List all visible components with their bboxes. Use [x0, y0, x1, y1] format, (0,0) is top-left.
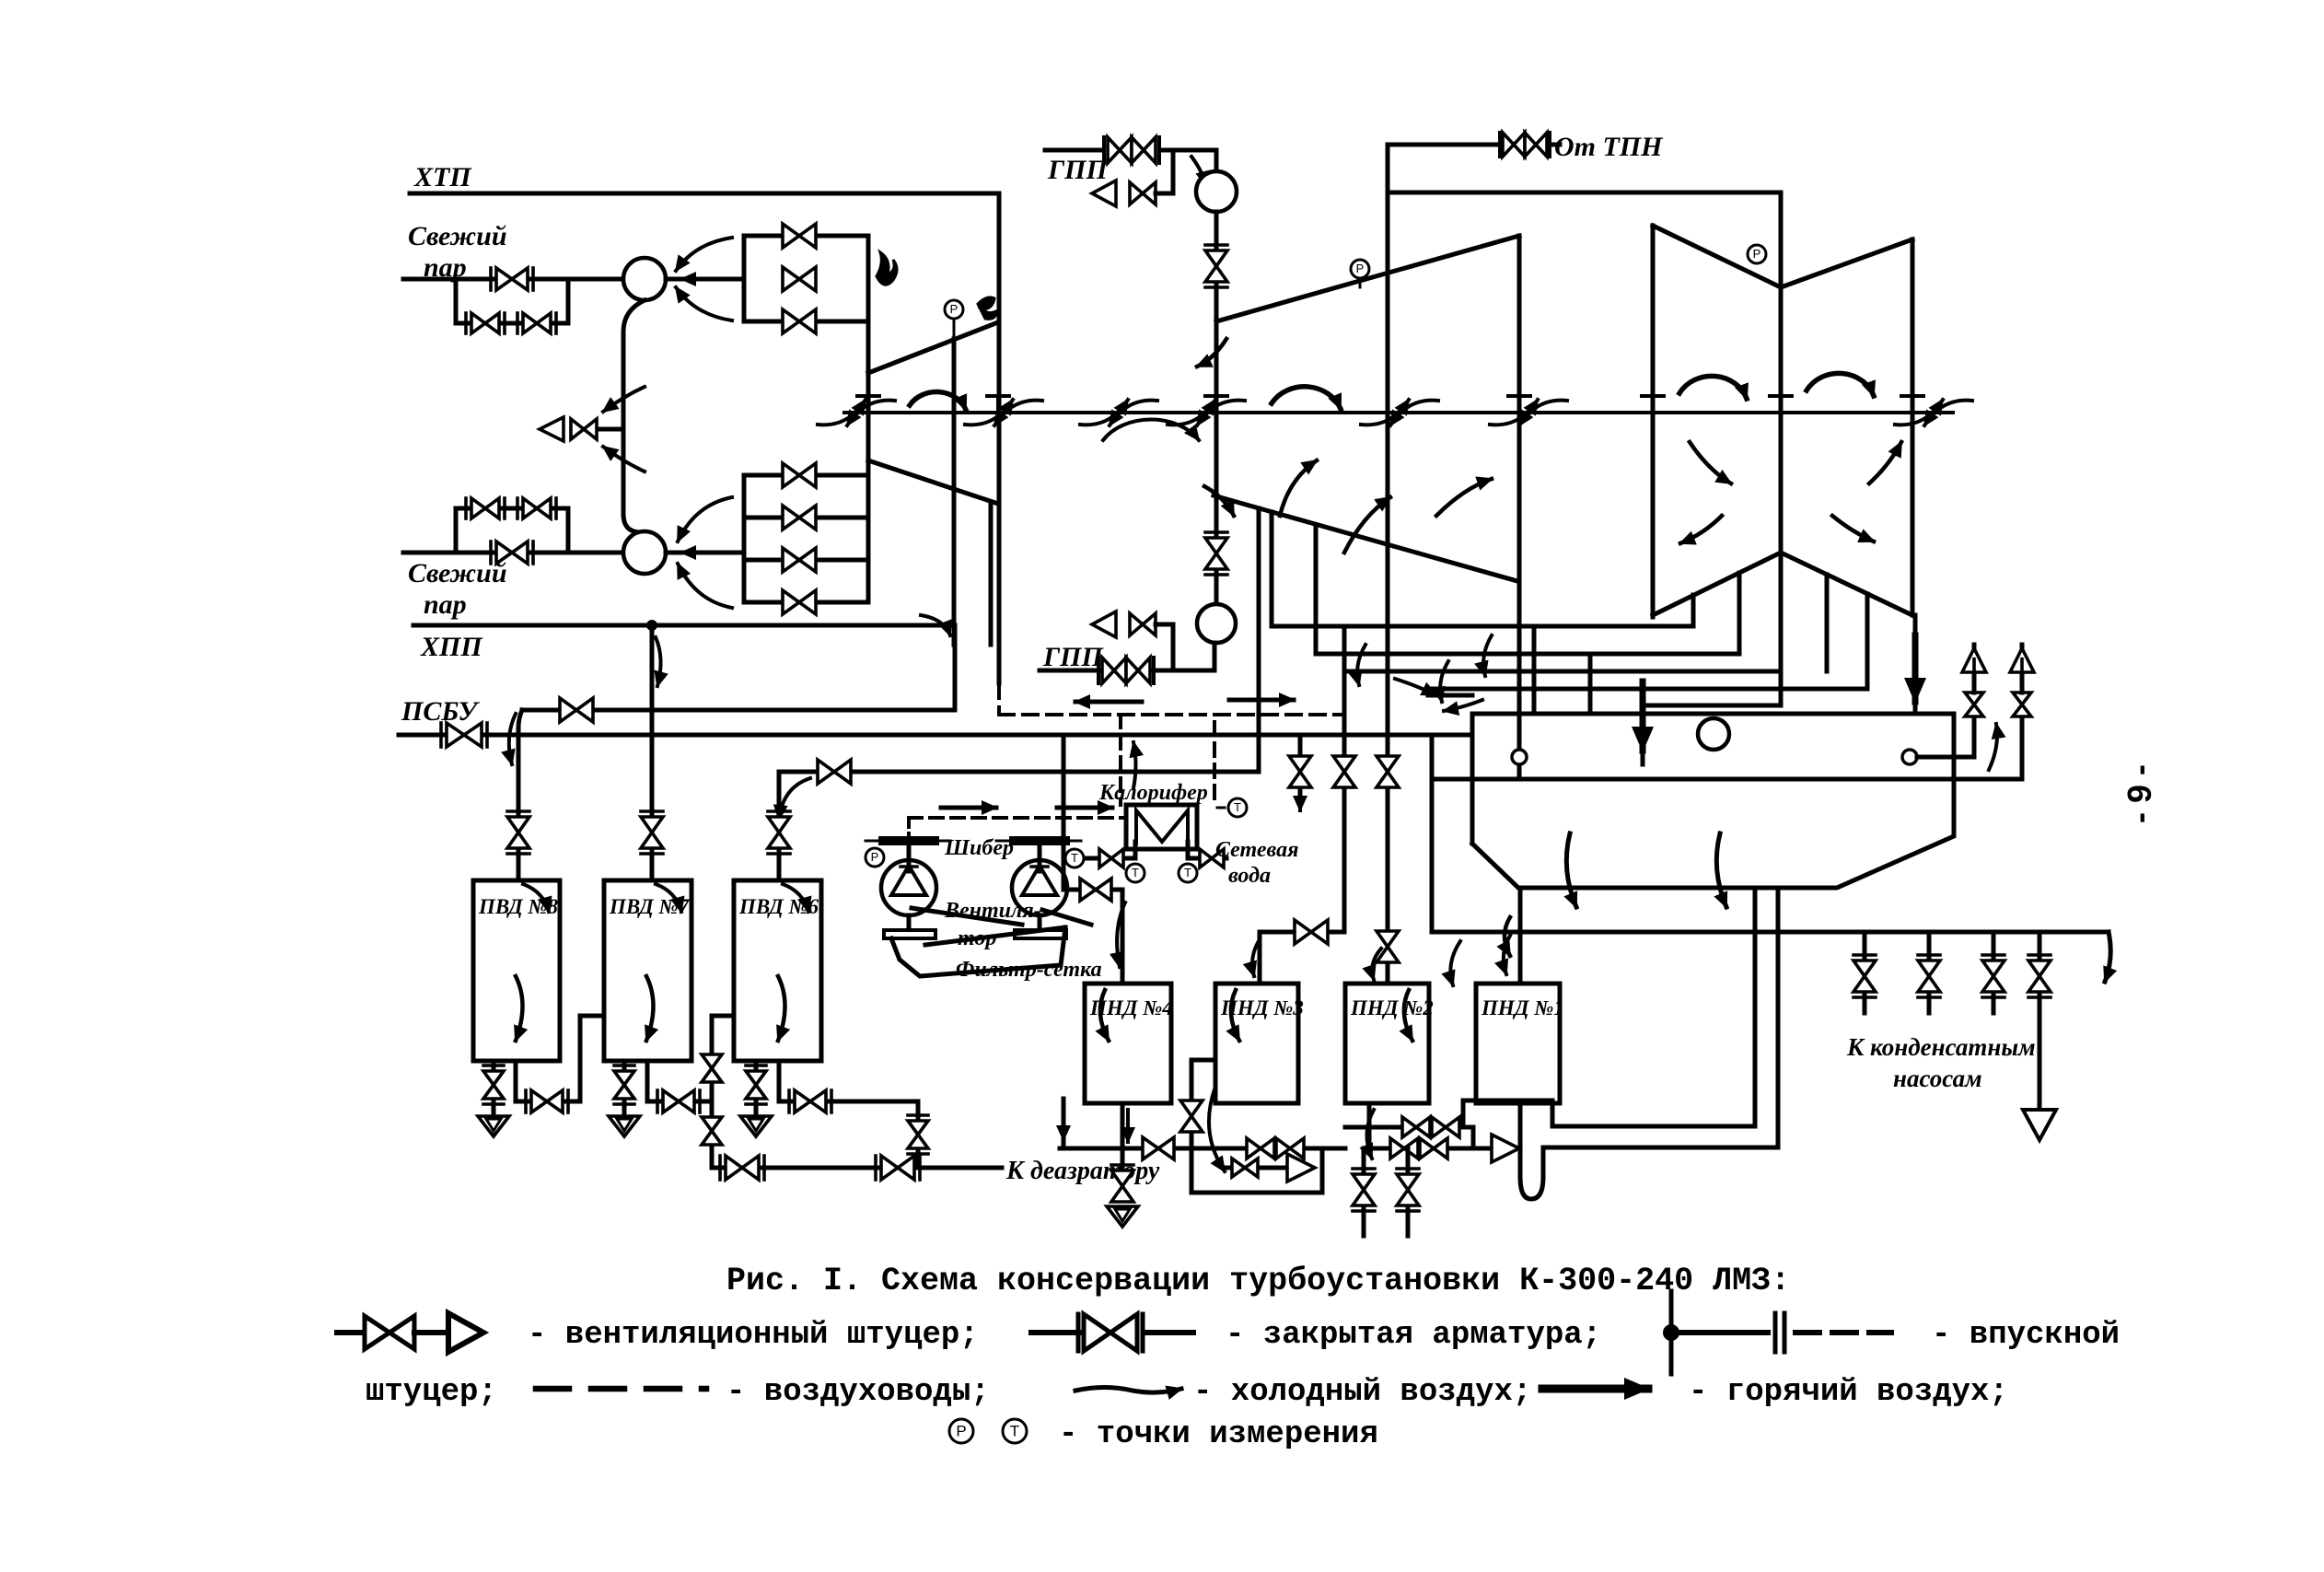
- svg-text:Т: Т: [1184, 866, 1191, 879]
- node scan smudge: [877, 252, 897, 285]
- node bold arrow cond feed 3: [1640, 681, 1646, 751]
- valve deaerator a: [726, 1156, 759, 1180]
- svg-text:От ТПН: От ТПН: [1554, 132, 1664, 162]
- turbine IP internal arrows below: [1103, 419, 1199, 440]
- valve bank1 row3: [783, 309, 816, 333]
- node junction dot: [646, 620, 657, 631]
- bearing HP left: [866, 396, 870, 413]
- node arrow into SV3: [1191, 157, 1206, 186]
- gauge T near duct: [1217, 807, 1228, 809]
- svg-text:- 9 -: - 9 -: [2121, 764, 2158, 823]
- svg-text:- вентиляционный штуцер;: - вентиляционный штуцер;: [528, 1318, 979, 1353]
- svg-text:- впускной: - впускной: [1932, 1318, 2120, 1353]
- air duct dashed into калорифер: [1119, 715, 1122, 805]
- wire ПВД6 drain: [754, 1061, 759, 1116]
- gauge T fan2: [1065, 849, 1084, 868]
- vent fitting mid (triangle+valve): [598, 427, 623, 432]
- bearing IP left: [1214, 396, 1218, 413]
- wire drop from SV1 to SV2: [623, 300, 645, 532]
- fan 1 support: [907, 915, 912, 930]
- wire ГПП bottom line: [1040, 669, 1214, 673]
- wire bank2 row2: [744, 516, 868, 520]
- node arrow inside ПВД7: [646, 976, 654, 1041]
- valve ПВД7 drain: [614, 1071, 634, 1099]
- valve ПВД6 drain: [746, 1071, 766, 1099]
- wire deaerator drop: [916, 1101, 921, 1168]
- valve condensate 4: [2038, 932, 2042, 960]
- wire vent drop mid: [1298, 735, 1303, 803]
- svg-text:насосам: насосам: [1893, 1065, 1982, 1092]
- node condenser internal arrow 2: [1716, 833, 1726, 907]
- node M inside калорифер: [1136, 810, 1188, 844]
- valve above ПВД8: [507, 817, 529, 848]
- fan 1 stem: [907, 840, 912, 871]
- legend gauges: [949, 1419, 973, 1443]
- gauge P fan1: [866, 848, 884, 867]
- node arrow сетевая: [1066, 856, 1086, 860]
- wire ГПП top line: [1045, 148, 1101, 153]
- wire ПНД3 drain riser: [1190, 1060, 1194, 1148]
- node down triangle condensate: [2023, 1110, 2056, 1140]
- node arrow ПНД2 drain: [1366, 1110, 1374, 1159]
- gauge T left: [1126, 864, 1145, 882]
- heater ПНД №2: [1345, 984, 1429, 1103]
- gauge P on IP: [1359, 278, 1362, 287]
- wire control valve bank 1 left rail: [742, 236, 747, 321]
- wire ПСБУ line: [399, 733, 1472, 738]
- wire ПНД1 feed: [1518, 888, 1523, 984]
- wire bundle H5: [1643, 704, 1781, 708]
- turbine HP internal arc: [910, 391, 966, 410]
- valve drain A: [1143, 1137, 1174, 1159]
- valve bank2 row4: [783, 590, 816, 614]
- valve deaerator b: [881, 1156, 914, 1180]
- filter slant line: [925, 927, 1065, 945]
- wire ГПП top to riser: [1162, 148, 1216, 153]
- valve ГПП top (double flanged): [1108, 137, 1132, 163]
- wire ПВД8 drain: [492, 1061, 496, 1116]
- node arrow into ПВД7: [656, 884, 681, 912]
- stop valve SV1: [623, 258, 666, 300]
- svg-text:Р: Р: [1753, 247, 1761, 261]
- wire ПВД8 drop: [518, 710, 522, 880]
- bearing LP right: [1911, 396, 1914, 413]
- valve on riser upper: [702, 1054, 722, 1082]
- node small circle tap 2: [1902, 750, 1917, 764]
- valve drain C1: [1402, 1117, 1430, 1137]
- funnel ПВД7: [609, 1116, 640, 1136]
- node arrow stub a: [1395, 679, 1436, 695]
- legend vent fitting symbol: [337, 1330, 365, 1335]
- node air arrow up: [1133, 742, 1136, 788]
- valve above ПВД6: [768, 817, 790, 848]
- valve ПНД2 feed lower: [1377, 931, 1399, 962]
- air duct dashed horizontal: [999, 713, 1344, 716]
- legend cold air symbol: [1075, 1388, 1181, 1393]
- valve сетевая left: [1099, 849, 1123, 868]
- wire condenser feed 4: [1913, 615, 1918, 714]
- wire ПНД1 U-seal: [1520, 1103, 1543, 1199]
- valve ГПП bottom (double flanged): [1102, 658, 1126, 683]
- heater ПВД №7: [604, 880, 691, 1061]
- wire ПВД7 drain: [622, 1061, 627, 1116]
- heater ПВД №8: [473, 880, 560, 1061]
- wire drain header A: [1060, 1147, 1191, 1151]
- wire control valve bank 2 left rail: [742, 475, 747, 602]
- bearing HP right: [996, 396, 1000, 413]
- node arrow stub b: [1444, 700, 1482, 711]
- fan 2 support: [1038, 915, 1042, 930]
- valve on riser lower: [702, 1117, 722, 1145]
- funnel ПВД8: [478, 1116, 509, 1136]
- wire сетевая вода left: [1086, 856, 1135, 861]
- valve drain D2: [1420, 1138, 1447, 1159]
- valve vent drop: [1289, 756, 1311, 787]
- wire ХТП header: [410, 192, 999, 196]
- condenser inner line: [1436, 777, 2022, 782]
- stop circle on condenser: [1698, 718, 1729, 750]
- vent fitting ГПП top: [1092, 180, 1116, 206]
- wire control valve bank 1 right rail: [866, 236, 871, 321]
- wire LP drain 4: [1865, 594, 1870, 689]
- wire ПНД4 feed riser: [1062, 735, 1066, 890]
- wire deaerator header: [712, 1166, 1002, 1170]
- wire drain header C: [1345, 1125, 1473, 1130]
- wire ПВД7 drop: [650, 625, 655, 880]
- wire IP long drain: [1517, 236, 1522, 779]
- node arrow ПНД4 drain: [1126, 1110, 1130, 1142]
- wire ПНД4 drain: [1121, 1103, 1125, 1148]
- wire bank1 row3: [744, 320, 868, 324]
- node arrows on IP inlet: [1197, 339, 1226, 367]
- wire stub left: [1062, 1099, 1066, 1145]
- svg-text:Свежий: Свежий: [408, 221, 507, 251]
- vent row ПНД3: [1225, 1166, 1287, 1170]
- wire condensate header: [1432, 930, 2109, 935]
- svg-text:Т: Т: [1071, 851, 1078, 865]
- vent fitting ГПП bottom: [1092, 611, 1116, 637]
- fan 1 circle: [881, 860, 936, 915]
- wire SV2 outlet: [666, 551, 744, 555]
- wire ХПП line: [413, 623, 955, 628]
- bearing IP right: [1517, 396, 1521, 413]
- valve bank1 row2 (on line): [783, 267, 816, 291]
- valve above ПВД7: [641, 817, 663, 848]
- air duct arrow right: [1229, 698, 1294, 703]
- wire ПВД6 header: [779, 770, 1259, 774]
- damper Шибер 1 bar: [878, 836, 939, 845]
- wire ПНД2 to condenser: [1463, 1099, 1552, 1103]
- node arrow stub down: [1062, 1105, 1065, 1140]
- heater ПНД №3: [1215, 984, 1298, 1103]
- gauge P on HP inlet: [953, 318, 956, 340]
- wire bundle H4: [1432, 687, 1867, 692]
- svg-text:- воздуховоды;: - воздуховоды;: [726, 1375, 990, 1410]
- wire control valve bank 2 right rail: [866, 321, 871, 602]
- wire LP drain 3: [1825, 575, 1830, 671]
- valve ПСБУ: [447, 723, 482, 747]
- turbine LP bottom V: [1653, 553, 1912, 615]
- valve bypass 2b: [523, 498, 551, 518]
- valve on ПВД6 header: [818, 760, 851, 784]
- filter screen outline: [891, 927, 1065, 976]
- svg-text:ПНД №2: ПНД №2: [1350, 996, 1434, 1019]
- legend inlet symbol: [1663, 1324, 1679, 1341]
- stop valve SV4: [1197, 604, 1236, 643]
- node condenser bottom arrows: [1505, 917, 1510, 956]
- air duct dashed drop: [997, 683, 1001, 715]
- fan 1 impeller: [891, 866, 926, 895]
- node arrow into ПВД8: [523, 884, 549, 912]
- wire drain header B: [1191, 1147, 1345, 1151]
- valve deaerator drop: [908, 1121, 928, 1148]
- svg-text:пар: пар: [424, 589, 467, 620]
- valve bank2 row3: [783, 548, 816, 572]
- wire LP drain 2: [1737, 573, 1742, 654]
- wire ПНД1 to condenser: [1543, 1146, 1778, 1150]
- legend air duct symbol: [536, 1386, 706, 1392]
- bearing LP left: [1651, 396, 1655, 413]
- wire ПВД6 drain branch: [777, 1061, 782, 1101]
- node arrow inside ПВД8: [516, 976, 523, 1041]
- wire ПНД3 jog: [1260, 930, 1344, 935]
- stop valve SV2: [623, 531, 666, 574]
- node От ТПН flanges: [1498, 133, 1502, 157]
- node arrow at ХПП right: [921, 615, 950, 635]
- vent stack 2: [2020, 716, 2025, 779]
- svg-text:Калорифер: Калорифер: [1098, 781, 1208, 805]
- node curved arrow condensate: [1450, 941, 1460, 985]
- valve ПНД3 feed: [1333, 756, 1355, 787]
- wire fresh steam line 1: [403, 277, 623, 282]
- valve bypass 1b: [523, 313, 551, 333]
- svg-text:Р: Р: [1356, 262, 1365, 275]
- condenser shell: [1472, 714, 1954, 888]
- svg-text:- горячий воздух;: - горячий воздух;: [1689, 1375, 2008, 1410]
- valve ПВД6 branch: [795, 1090, 826, 1112]
- wire SV1 outlet: [666, 277, 744, 282]
- wire IP drain 2: [1314, 527, 1319, 654]
- heater ПНД №4: [1085, 984, 1171, 1103]
- wire ХТП riser down right side of HP: [997, 193, 1002, 683]
- svg-text:Т: Т: [1010, 1422, 1019, 1439]
- svg-text:ХТП: ХТП: [413, 162, 472, 192]
- node curved arrow below vent: [603, 447, 645, 472]
- svg-text:ХПП: ХПП: [420, 632, 483, 662]
- node condenser internal arrow 1: [1566, 833, 1576, 907]
- shaft whisker HP right: [965, 400, 1013, 425]
- node arrow vent drop: [1298, 779, 1302, 810]
- node arrow near bundle 1: [1357, 645, 1365, 685]
- shaft whisker IP left: [1168, 400, 1215, 425]
- svg-text:Фильтр-сетка: Фильтр-сетка: [956, 958, 1102, 982]
- wire bundle H1: [1272, 624, 1693, 629]
- fan 2 stem: [1038, 840, 1042, 871]
- svg-text:штуцер;: штуцер;: [366, 1375, 497, 1410]
- turbine LP left edge: [1651, 226, 1656, 617]
- valve on ПВД8 header: [560, 698, 593, 722]
- valve condensate 2: [1927, 932, 1932, 960]
- valve ПНД2 blowdown 2: [1406, 1148, 1411, 1236]
- valve fresh steam 1 main: [496, 268, 528, 290]
- svg-text:вода: вода: [1228, 864, 1271, 888]
- valve condensate 3: [1992, 932, 1996, 960]
- shaft whisker IP right: [1490, 400, 1538, 425]
- wire condenser feed 1: [1532, 626, 1537, 714]
- svg-text:ГПП: ГПП: [1042, 642, 1104, 672]
- wire От ТПН riser / ПНД2 feed: [1386, 145, 1390, 984]
- shaft line: [844, 411, 1953, 414]
- valve ПНД3 jog: [1295, 920, 1328, 944]
- valve drain D1: [1390, 1138, 1418, 1159]
- node arrow at vent stack: [1989, 724, 1997, 770]
- node arrow ПВД6 corner: [779, 778, 810, 820]
- wire stub into condenser: [1428, 693, 1472, 698]
- turbine IP internal arc: [1272, 387, 1341, 409]
- node fern arrows SV1: [676, 238, 732, 271]
- node arrow into ПНД2: [1372, 949, 1381, 980]
- legend hot air symbol: [1542, 1385, 1648, 1393]
- svg-text:ГПП: ГПП: [1047, 155, 1109, 185]
- node scan smudge 2: [978, 297, 996, 319]
- wire bypass loop 1: [456, 279, 568, 323]
- node ГПП bottom flanges: [1097, 658, 1100, 683]
- node arrow in loop: [1209, 1087, 1225, 1171]
- shaft whisker left: [818, 400, 866, 425]
- wire ПВД8 drain branch: [514, 1061, 518, 1101]
- node arrow into ПНД1: [1504, 936, 1510, 974]
- turbine LP top slant left: [1653, 226, 1781, 287]
- wire loop C: [1471, 1127, 1476, 1148]
- turbine IP bottom slant: [1214, 495, 1517, 581]
- wire ПВД6 drop: [777, 772, 782, 880]
- valve bank2 row2: [783, 506, 816, 530]
- funnel ПНД4: [1107, 1206, 1138, 1227]
- valve condensate 1: [1863, 932, 1867, 960]
- node arrow into ПНД4: [1117, 902, 1125, 967]
- wire ПНД4 blowdown: [1121, 1148, 1125, 1170]
- valve bypass 2a: [471, 498, 499, 518]
- wire IP extraction to ПВД6: [1257, 508, 1261, 772]
- valve ГПП column lower: [1205, 538, 1227, 569]
- svg-text:Т: Т: [1234, 800, 1241, 814]
- node curved arrow above vent: [603, 387, 645, 412]
- wire bank1 row1: [744, 234, 868, 239]
- node arrow inside ПНД2: [1404, 990, 1412, 1041]
- wire bank2 row1: [744, 473, 868, 478]
- turbine LP arcs: [1679, 376, 1747, 399]
- valve ПВД8 drain: [483, 1071, 504, 1099]
- air flow arrows to калорифер: [941, 806, 996, 810]
- node arrow inside ПВД6: [778, 976, 785, 1041]
- funnel ПВД6: [740, 1116, 772, 1136]
- wire ПНД2 drain: [1367, 1103, 1372, 1148]
- stop valve SV3: [1196, 171, 1237, 212]
- turbine LP right edge: [1911, 239, 1915, 615]
- wire HP drain down: [989, 502, 994, 645]
- wire condenser feed 2: [1588, 654, 1593, 714]
- node ГПП top flanges: [1102, 137, 1106, 163]
- gauge T right: [1179, 864, 1197, 882]
- node arrow condensate header end: [2105, 932, 2110, 982]
- wire condenser feed 3: [1641, 705, 1645, 764]
- turbine LP center line: [1779, 192, 1784, 551]
- valve ПНД3 drain: [1180, 1100, 1203, 1132]
- shaft whisker IP mid: [1361, 400, 1409, 425]
- bearing LP mid: [1779, 396, 1783, 413]
- wire bundle H2: [1316, 652, 1739, 657]
- fan 2 circle: [1012, 860, 1067, 915]
- air duct to калорифер dashed: [1213, 722, 1216, 805]
- svg-text:К деазратору: К деазратору: [1005, 1157, 1160, 1185]
- node arrow on ПВД7 drop: [656, 637, 661, 686]
- heat exchanger калорифер box: [1126, 805, 1197, 849]
- valve ПНД4 feed: [1080, 879, 1111, 901]
- svg-text:Р: Р: [950, 302, 959, 316]
- valve ПНД2 feed upper: [1377, 756, 1399, 787]
- wire bypass loop ПНД3: [1191, 1148, 1322, 1193]
- air duct arrow left: [1075, 700, 1142, 704]
- node arrow on ПВД8 drop: [509, 714, 516, 764]
- svg-text:К конденсатным: К конденсатным: [1846, 1033, 2036, 1061]
- damper Шибер 2 bar: [1009, 836, 1070, 845]
- node arrow inside ПНД3: [1231, 990, 1239, 1041]
- valve сетевая right: [1200, 849, 1224, 868]
- turbine HP cylinder top slant: [868, 322, 998, 373]
- wire bypass loop 2: [456, 508, 568, 553]
- fan support diag: [912, 908, 1022, 925]
- wire LP drain 1: [1691, 595, 1696, 626]
- svg-text:- закрытая арматура;: - закрытая арматура;: [1226, 1318, 1601, 1353]
- wire fresh steam line 2: [403, 551, 623, 555]
- shaft whisker LP right: [1895, 400, 1943, 425]
- valve ПВД7 branch: [663, 1090, 694, 1112]
- valve bypass 1a: [471, 313, 499, 333]
- valve ГПП column upper: [1205, 250, 1227, 282]
- vent ПНД2: [1473, 1147, 1492, 1151]
- valve drain B1: [1247, 1138, 1274, 1159]
- heater ПНД №1: [1476, 984, 1560, 1103]
- valve bank1 row1: [783, 224, 816, 248]
- wire ПНД3 feed drop: [1342, 626, 1347, 932]
- wire bundle H3: [1344, 670, 1781, 674]
- wire ХПП to ПВД8 header: [953, 625, 958, 710]
- valve ПВД8 branch: [531, 1090, 563, 1112]
- fan 2 impeller: [1022, 866, 1057, 895]
- air duct to fans dashed: [909, 816, 1126, 820]
- node arrow inside ПНД4: [1100, 990, 1109, 1041]
- node arrow into ПНД3: [1252, 939, 1260, 976]
- vent stack 1: [1972, 716, 1977, 757]
- turbine HP cylinder bottom slant: [868, 460, 998, 504]
- node fern arrows SV2: [678, 497, 732, 541]
- svg-text:Сетевая: Сетевая: [1215, 838, 1298, 862]
- turbine IP top slant: [1216, 236, 1519, 321]
- wire LP drain center: [1779, 551, 1784, 705]
- wire От ТПН line: [1550, 143, 1560, 147]
- valve ПНД4 blowdown: [1111, 1170, 1133, 1202]
- valve ПНД2 blowdown 1: [1362, 1148, 1366, 1236]
- svg-text:- точки измерения: - точки измерения: [1059, 1417, 1378, 1452]
- svg-text:Рис. I. Схема консервации турб: Рис. I. Схема консервации турбоустановки…: [726, 1263, 1790, 1299]
- valve fresh steam 2 main: [496, 541, 528, 564]
- legend closed valve symbol: [1031, 1330, 1079, 1335]
- wire IP drain 1: [1270, 512, 1274, 626]
- heater ПВД №6: [734, 880, 821, 1061]
- valve drain C2: [1432, 1117, 1459, 1137]
- svg-text:Р: Р: [956, 1422, 966, 1439]
- wire crossover top: [1388, 191, 1781, 195]
